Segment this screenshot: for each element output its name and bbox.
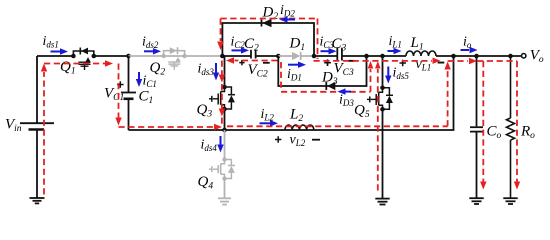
red current path: bottom horizontal C1 to Q3 (119, 126, 214, 128)
red current path: output top horizontal (448, 60, 517, 62)
transistor Q3 branch wire from rail (224, 56, 226, 87)
diode D3 (326, 82, 335, 90)
current arrow i_o (461, 47, 478, 53)
red current path: D3 loop bottom (281, 91, 371, 93)
node A (C2 left / D2 branch) (220, 54, 225, 59)
current arrow i_ds2 (144, 48, 161, 54)
ground (Co) (469, 198, 483, 204)
red current path: down through Ro (516, 61, 518, 182)
plus mark C2 (239, 60, 244, 65)
current arrow i_ds4 (217, 136, 223, 153)
minus mark v_L2 (312, 139, 320, 141)
wire top rail left (Vin to Q1) (37, 55, 73, 57)
current arrow i_L2 (260, 120, 279, 126)
body diode of Q5 (383, 88, 390, 110)
red current path: down through Co (482, 61, 484, 182)
wire gray C1-node to Q2 (129, 55, 164, 57)
red current path: bottom rail to output riser (227, 69, 448, 126)
ground (Q5) (375, 199, 389, 205)
current arrow i_D3 (338, 88, 352, 94)
current arrow i_D1 (288, 62, 306, 68)
wire rail C3 to L1 (367, 55, 407, 57)
diode D1 (inactive gray) (278, 52, 314, 60)
resistor Ro (507, 56, 515, 198)
red current path: top horizontal under Q1 (44, 63, 105, 65)
capacitor C2 (222, 50, 278, 59)
terminal Vo (522, 54, 526, 58)
body diode of Q1 (79, 48, 81, 55)
capacitor Co (470, 56, 483, 198)
body diode of Q2 (177, 47, 179, 54)
node C1 top (126, 54, 131, 59)
transistor Q5 (367, 86, 393, 112)
minus mark v_L1 (438, 62, 445, 64)
node Ro tap (508, 54, 513, 59)
red current path: D3 loop right riser up (370, 69, 372, 92)
transistor Q4 (inactive gray) wire from bottom rail (224, 130, 226, 160)
node Q3 source / bottom rail junction (222, 128, 227, 133)
body diode of Q3 (225, 87, 232, 109)
wire bottom rail (C1 to riser) (129, 56, 454, 130)
node B (C2 right / D1 anode / D3 branch) (276, 54, 281, 59)
minus mark C2 (263, 62, 270, 64)
red current path: vertical beside C1 (118, 64, 120, 118)
transistor Q5 branch wire from rail (382, 56, 384, 88)
wire Q4 source to ground (224, 179, 226, 199)
node D2 cathode on rail (312, 54, 317, 59)
current arrow i_ds3 (213, 63, 219, 81)
red current path: under C3 to L1 (314, 60, 433, 62)
plus mark v_L1 (400, 60, 407, 66)
wire gray Q2 to node A (185, 55, 223, 57)
transistor Q4 (209, 157, 235, 180)
node L1 right / riser (451, 54, 456, 59)
current arrow i_L1 (388, 48, 402, 54)
node C3 right / D3 cathode riser (364, 54, 369, 59)
wire Q1 to C1 node (94, 55, 129, 57)
ground (Q4, gray) (218, 198, 231, 204)
current arrow i_C3 (321, 48, 337, 54)
current arrow i_ds5 (385, 67, 391, 84)
diode D2 branch wire (222, 23, 314, 56)
inductor L2 (285, 125, 314, 130)
plus mark C3 (324, 59, 331, 66)
ground (Vin) (30, 198, 45, 203)
wire Q3 source to bottom rail (224, 109, 226, 130)
current arrow i_C2 (232, 47, 250, 53)
current arrow i_ds1 (51, 48, 69, 54)
diode D3 branch wire (278, 56, 366, 86)
red current path: down through Q3 (221, 61, 223, 125)
Q2 gate structure (168, 61, 180, 63)
current arrow i_C1 (136, 72, 142, 87)
wire Q5 source to ground (382, 109, 384, 198)
transistor Q3 (209, 85, 235, 112)
red current path: C2 return arrow to Q3 (235, 60, 278, 62)
node Co tap (474, 54, 479, 59)
plus mark C1 (117, 81, 124, 88)
node dots Q1 (71, 54, 76, 59)
body diode of Q4 (225, 160, 232, 179)
transistor Q2 (inactive gray) (161, 47, 186, 69)
wire top rail right (L1 to Vo) (436, 55, 521, 57)
ground (Ro) (503, 198, 517, 204)
capacitor C3 (314, 48, 367, 61)
capacitor C1 (121, 56, 136, 130)
red current path: D2 loop top (221, 19, 318, 60)
voltage source Vin (20, 56, 54, 198)
minus mark C3 (348, 60, 355, 62)
red current path: input loop vertical at Vin (43, 72, 45, 195)
Q1 gate structure (79, 61, 91, 63)
transistor Q1 (71, 48, 96, 71)
red current path: up along Q5 (377, 69, 379, 191)
diode D2 (262, 19, 272, 27)
plus mark v_L2 (275, 136, 281, 142)
current arrow i_D2 (280, 16, 296, 22)
inductor L1 (406, 51, 436, 56)
red current path: D3 loop left riser (280, 62, 282, 90)
node Q5 top on rail (380, 54, 385, 59)
